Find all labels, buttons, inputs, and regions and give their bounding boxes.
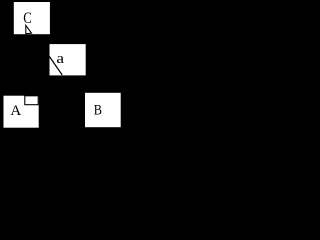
background	[0, 0, 124, 129]
edge label box a	[50, 44, 86, 75]
edge line (through label box a)	[49, 56, 62, 75]
arrowhead (edge into C)	[26, 25, 32, 33]
svg-text:B: B	[94, 102, 102, 118]
svg-text:a: a	[56, 51, 64, 67]
svg-text:A: A	[10, 103, 21, 119]
node A	[4, 96, 39, 128]
node B	[85, 93, 121, 127]
svg-text:C: C	[23, 10, 32, 28]
small square (empty label box at A top-right)	[25, 96, 38, 105]
node C	[14, 2, 50, 34]
